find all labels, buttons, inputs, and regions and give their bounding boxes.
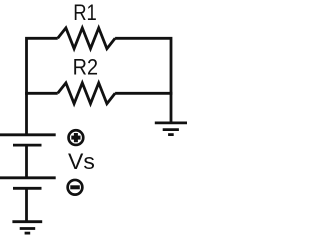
ground (right, below right rail): [155, 123, 187, 135]
wire: battery negative plate down to ground: [25, 188, 28, 221]
wire: R2 left lead from left rail: [25, 92, 58, 95]
svg-text:Vs: Vs: [68, 149, 95, 174]
wire: R2 right lead to right rail: [115, 92, 172, 95]
resistor R2: [58, 83, 115, 104]
ground (left, below battery): [12, 222, 42, 233]
svg-text:R2: R2: [73, 55, 98, 80]
resistor R1: [58, 28, 115, 49]
battery negative terminal symbol (circled minus): [68, 180, 83, 195]
wire: R1 right lead into right rail down to ground: [115, 38, 171, 123]
svg-text:R1: R1: [73, 0, 97, 25]
wire: left rail from top node down to battery positive plate: [27, 38, 58, 135]
battery positive terminal symbol (circled plus): [69, 130, 84, 145]
battery Vs (two cells): [0, 135, 56, 189]
